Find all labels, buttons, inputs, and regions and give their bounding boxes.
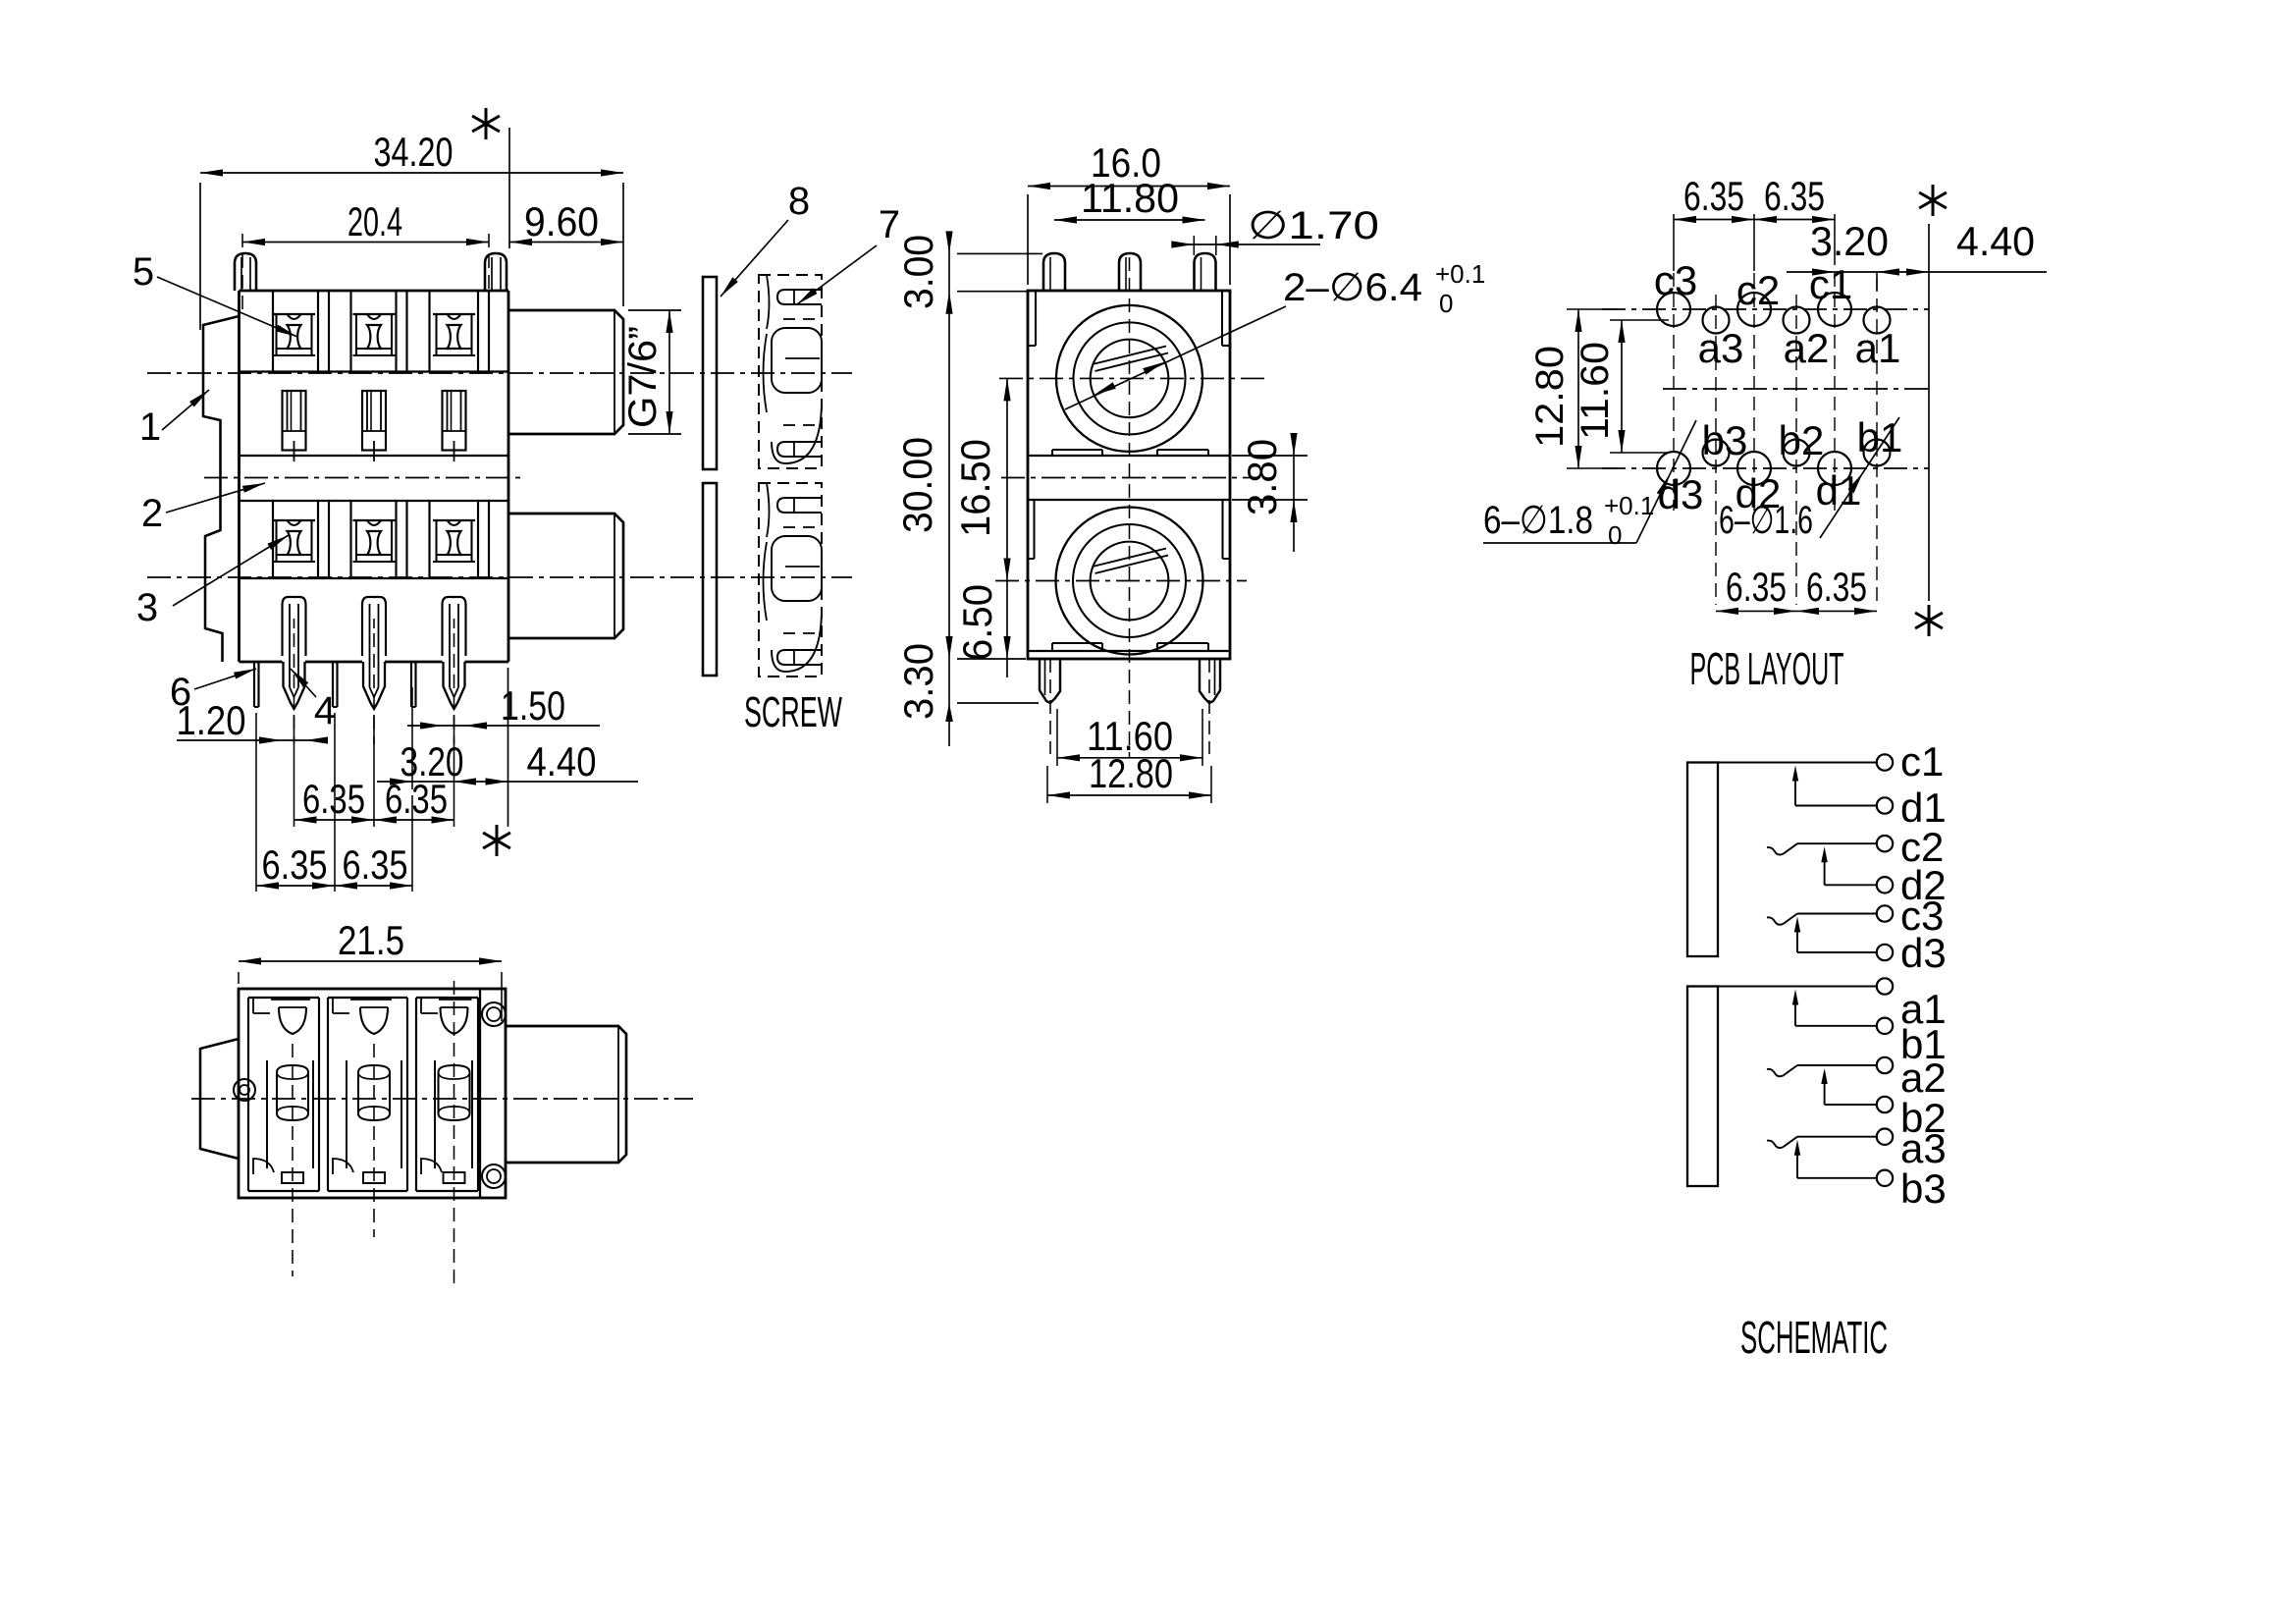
bottom view: flange screw hole [234, 1079, 255, 1101]
svg-text:20.4: 20.4 [347, 198, 402, 244]
callout 6-dia1.6 with leader [1719, 417, 1899, 542]
SCREW caption [744, 688, 842, 736]
side view: lower jack centerline [147, 576, 852, 578]
front view: body outline [1028, 291, 1230, 659]
part label 6 with leader [170, 669, 256, 714]
asterisk mark top [472, 108, 509, 248]
schematic terminal a1 [1877, 978, 1947, 1032]
dimension 1.20 [177, 697, 329, 744]
dimension 11.60 pcb rows [1574, 320, 1669, 453]
svg-text:a3: a3 [1900, 1125, 1947, 1171]
dimension 3.30 leg length [895, 643, 1039, 746]
svg-text:6–∅1.6: 6–∅1.6 [1719, 499, 1813, 542]
part label 2 with leader [141, 483, 265, 535]
svg-text:2–∅6.4: 2–∅6.4 [1283, 266, 1422, 309]
svg-text:b2: b2 [1779, 417, 1825, 463]
svg-text:c1: c1 [1809, 261, 1852, 307]
front view: bottom legs [1040, 659, 1220, 754]
dimension chain 6.35 6.35 pcb bottom [1716, 564, 1877, 615]
side view: locating tab 1 (part 6) [254, 662, 259, 707]
svg-text:21.5: 21.5 [338, 917, 404, 963]
bottom view: body outline [239, 989, 506, 1198]
svg-text:∅1.70: ∅1.70 [1248, 204, 1379, 247]
side view: solder leg 3 (part 4) [443, 597, 466, 744]
pcb layout: row centerline top [1602, 308, 1929, 310]
dimension 3.20 [377, 687, 638, 789]
svg-text:6.35: 6.35 [1726, 564, 1787, 610]
svg-text:4.40: 4.40 [527, 738, 597, 785]
callout 6-dia1.8 +0.1/0 with leader [1483, 420, 1696, 550]
bottom view: channel centerlines [293, 981, 454, 1286]
schematic terminal c1 [1877, 738, 1945, 785]
pcb pad d1 (1.8mm hole) [1818, 452, 1851, 485]
side view: top spring pin left [235, 253, 256, 291]
svg-text:6.35: 6.35 [385, 776, 448, 822]
dimension chain 6.35 6.35 upper [294, 715, 454, 827]
svg-text:12.80: 12.80 [1089, 750, 1173, 796]
dimension 9.60 bushing length [509, 198, 623, 245]
front view: upper jack horizontal centerline [999, 377, 1264, 379]
svg-text:1: 1 [139, 406, 161, 449]
svg-text:3.00: 3.00 [895, 235, 941, 309]
dimension dia 1.70 [1171, 204, 1379, 255]
svg-text:d3: d3 [1900, 930, 1947, 976]
schematic terminal b3 [1877, 1165, 1947, 1212]
dimension 3.20 pcb [1787, 218, 2047, 291]
svg-text:8: 8 [788, 180, 810, 223]
bottom view: channel 1 [248, 998, 319, 1191]
dimension 4.40 pcb [1906, 218, 2035, 276]
side view: upper section column partitions [273, 291, 489, 372]
svg-text:9.60: 9.60 [524, 198, 599, 244]
pcb layout: pad labels bottom row [1658, 414, 1903, 517]
svg-text:SCHEMATIC: SCHEMATIC [1740, 1312, 1888, 1363]
svg-text:3: 3 [136, 586, 158, 629]
part label 7 with leader [797, 203, 900, 304]
schematic terminal b2 [1877, 1095, 1947, 1141]
schematic wire a1-b1 with switch arrow [1718, 987, 1877, 1026]
side view: solder leg 2 (part 4) [362, 597, 386, 744]
dimension 3.00 pin height [895, 231, 1042, 313]
dimension 21.5 bottom view [239, 917, 502, 1021]
svg-text:2: 2 [141, 492, 163, 535]
svg-text:11.80: 11.80 [1081, 175, 1179, 221]
SCHEMATIC caption [1740, 1312, 1888, 1363]
side view: solder leg 1 (part 4) [283, 597, 306, 744]
svg-text:6.35: 6.35 [262, 841, 328, 888]
pcb pad c2 (1.8mm hole) [1737, 293, 1771, 326]
svg-text:b3: b3 [1702, 417, 1748, 463]
dimension 2-dia 6.4 +0.1/0 with leader [1065, 259, 1485, 409]
dimension 3.80 mid bar [1232, 433, 1308, 552]
side view: locating tab 3 [411, 662, 416, 707]
svg-text:0: 0 [1608, 520, 1622, 550]
pcb pad b1 (1.6mm hole) [1864, 440, 1891, 466]
knurled nut upper (part 7) [759, 275, 822, 468]
schematic terminal d1 [1877, 785, 1947, 831]
schematic terminal a2 [1877, 1055, 1947, 1101]
pcb layout: column centerlines c/d [1674, 273, 1835, 511]
side view: locating tab 2 [333, 662, 338, 707]
svg-text:6.35: 6.35 [1764, 173, 1825, 219]
front view: mid module centerline [1001, 477, 1258, 479]
svg-text:a1: a1 [1855, 325, 1901, 371]
dimension 1.50 [407, 682, 600, 730]
front view: top pins [1043, 253, 1216, 291]
bottom view: threaded bushing [506, 1026, 626, 1163]
side view: lower terminal screw recess 3 (part 3) [433, 520, 475, 562]
svg-text:1.50: 1.50 [501, 682, 565, 729]
pcb pad c3 (1.8mm hole) [1657, 293, 1690, 326]
bottom view: channel 3 [416, 998, 478, 1191]
svg-text:d3: d3 [1658, 471, 1704, 517]
svg-text:c3: c3 [1654, 257, 1697, 303]
svg-text:12.80: 12.80 [1528, 346, 1572, 448]
svg-text:6.35: 6.35 [1806, 564, 1867, 610]
pcb layout: mid centerline [1663, 388, 1929, 390]
pcb pad a1 (1.6mm hole) [1864, 307, 1891, 334]
svg-text:0: 0 [1439, 289, 1453, 318]
front view: lower jack pedestal [1028, 643, 1230, 651]
side view: upper terminal screw recess 2 (part 5) [353, 314, 396, 355]
svg-text:3.30: 3.30 [895, 643, 941, 720]
pcb layout: reference line with asterisks [1915, 185, 1947, 636]
svg-text:3.80: 3.80 [1239, 439, 1285, 515]
washer upper (part 8) [703, 277, 717, 469]
side view: top spring pin right [485, 253, 507, 291]
pcb pad c1 (1.8mm hole) [1818, 293, 1851, 326]
svg-text:+0.1: +0.1 [1435, 259, 1485, 289]
pcb pad d2 (1.8mm hole) [1737, 452, 1771, 485]
schematic terminal a3 [1877, 1125, 1947, 1171]
svg-text:11.60: 11.60 [1574, 342, 1617, 440]
bottom view: mounting screw hole top [482, 1002, 506, 1026]
pcb pad a3 (1.6mm hole) [1703, 307, 1730, 334]
dimension 12.80 pcb rows [1528, 309, 1618, 468]
dimension chain 6.35 6.35 lower [256, 713, 412, 892]
schematic wire a3-b3 with break contact [1767, 1137, 1877, 1178]
part label 8 with leader [721, 180, 810, 297]
svg-text:b3: b3 [1900, 1165, 1947, 1212]
front view: top corner notches [1028, 291, 1230, 346]
svg-text:c2: c2 [1736, 267, 1780, 313]
PCB LAYOUT caption [1690, 643, 1844, 694]
dimension 11.60 leg span [1057, 709, 1202, 766]
svg-text:PCB LAYOUT: PCB LAYOUT [1690, 643, 1844, 694]
side view: upper terminal screw recess 3 (part 5) [433, 314, 475, 355]
svg-text:6.50: 6.50 [954, 584, 1000, 661]
front view: lower jack horizontal centerline [995, 580, 1247, 582]
side view: upper jack centerline [147, 372, 852, 374]
svg-text:34.20: 34.20 [374, 129, 454, 175]
part label 3 with leader [136, 535, 289, 629]
schematic: lower jack body bar [1687, 987, 1718, 1187]
dimension 16.0 [1028, 139, 1230, 285]
washer lower [703, 483, 717, 676]
schematic terminal d3 [1877, 930, 1947, 976]
side view: left flange steps (part 1 region) [203, 316, 240, 662]
pcb layout: pad labels top row [1654, 257, 1901, 371]
front view: lower section corner notches [1028, 500, 1230, 559]
knurled nut lower [759, 483, 822, 677]
front view: lower jack circles [1056, 508, 1203, 655]
svg-text:SCREW: SCREW [744, 688, 842, 736]
svg-text:a2: a2 [1784, 325, 1830, 371]
schematic terminal c2 [1877, 824, 1945, 870]
schematic wire c2-d2 with break contact [1767, 843, 1877, 885]
svg-text:1.20: 1.20 [177, 697, 246, 743]
bottom view: mounting screw hole bottom [482, 1164, 506, 1188]
schematic terminal b1 [1877, 1018, 1947, 1067]
svg-text:3.20: 3.20 [1810, 218, 1889, 264]
side view: dual phone jack body outline [240, 291, 509, 662]
dimension G7/6 bushing thread [621, 310, 681, 434]
pcb layout: column centerlines a/b [1716, 278, 1877, 605]
front view: upper jack circles [1056, 305, 1202, 452]
pcb pad b2 (1.6mm hole) [1784, 440, 1810, 466]
svg-text:6–∅1.8: 6–∅1.8 [1483, 499, 1593, 542]
bottom view: left flange [200, 1039, 239, 1159]
dimension 12.80 leg span outer [1047, 750, 1211, 803]
part label 4 with leader [291, 669, 336, 732]
pcb layout: row centerline bottom [1602, 467, 1929, 469]
svg-text:30.00: 30.00 [894, 437, 940, 533]
dimension 34.20 overall width [200, 129, 623, 330]
bottom view: horizontal centerline [191, 1098, 693, 1100]
dimension 20.4 pin span [242, 198, 489, 316]
svg-text:+0.1: +0.1 [1604, 491, 1654, 520]
side view: upper threaded bushing [508, 310, 623, 434]
side view: upper flat contact 1 [283, 391, 306, 461]
svg-text:6.35: 6.35 [1683, 173, 1744, 219]
svg-text:G7/6”: G7/6” [621, 326, 665, 428]
side view: upper flat contact 3 [443, 391, 466, 461]
svg-text:16.50: 16.50 [952, 439, 998, 537]
part label 5 with leader [133, 250, 297, 337]
pcb pad a2 (1.6mm hole) [1784, 307, 1810, 334]
svg-text:4.40: 4.40 [1956, 218, 2035, 264]
pcb pad d3 (1.8mm hole) [1657, 452, 1690, 485]
schematic: upper jack body bar [1687, 763, 1718, 957]
dimension 30.00 body height [894, 312, 1026, 659]
dimension 6.50 [954, 581, 1011, 678]
side view: lower terminal screw recess 1 (part 3) [273, 520, 315, 562]
svg-text:c1: c1 [1900, 738, 1944, 785]
svg-text:a2: a2 [1900, 1055, 1947, 1101]
schematic wire c3-d3 with break contact [1767, 914, 1877, 953]
side view: lower threaded bushing [508, 514, 623, 638]
bottom view: channel 2 [328, 998, 407, 1191]
front view: vertical centerline [1129, 257, 1131, 758]
asterisk mark bottom of side view [483, 668, 510, 856]
svg-text:4: 4 [314, 689, 336, 732]
side view: upper terminal screw recess 1 (part 5) [273, 314, 315, 355]
schematic terminal c3 [1877, 893, 1945, 939]
svg-text:6.35: 6.35 [302, 776, 365, 822]
side view: mid centerline between jacks [204, 477, 520, 479]
side view: upper flat contact 2 [362, 391, 386, 461]
svg-text:a3: a3 [1698, 325, 1744, 371]
side view: lower section column partitions [273, 501, 489, 578]
svg-text:5: 5 [133, 250, 154, 294]
dimension 4.40 [486, 738, 597, 785]
side view: lower terminal screw recess 2 (part 3) [353, 520, 396, 562]
dimension chain 6.35 6.35 pcb top [1674, 173, 1835, 271]
schematic wire a2-b2 with break contact [1767, 1065, 1877, 1105]
schematic terminal d2 [1877, 862, 1947, 908]
dimension 16.50 axis spacing [952, 378, 1011, 580]
dimension 11.80 [1054, 175, 1205, 224]
svg-text:6.35: 6.35 [343, 841, 408, 888]
schematic wire c1-d1 with switch arrow [1718, 763, 1877, 806]
front view: upper jack pedestal [1028, 450, 1230, 500]
pcb pad b3 (1.6mm hole) [1703, 440, 1730, 466]
part label 1 with leader [139, 390, 209, 449]
